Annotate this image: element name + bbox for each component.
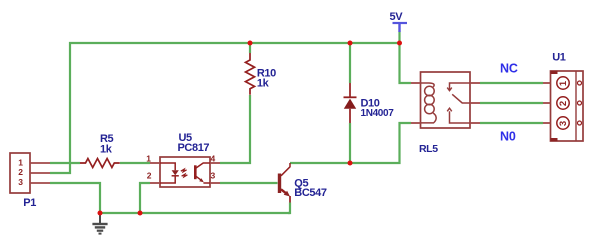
wire U5 pin3 to Q5 base	[220, 182, 278, 184]
junction dot ground/U5 pin2	[138, 211, 143, 216]
light arrows inside U5	[181, 169, 187, 172]
wire D10 top to rail	[349, 43, 351, 83]
svg-text:4: 4	[211, 153, 216, 163]
wire relay NC to U1 pin1	[480, 82, 543, 84]
transistor Q5	[280, 163, 327, 203]
junction dot 5V node	[397, 41, 402, 46]
svg-text:PC817: PC817	[178, 142, 210, 154]
svg-text:1: 1	[18, 157, 23, 167]
junction dot D10/rail	[348, 41, 353, 46]
wire 5V top rail with left drop to P1 pin2	[50, 43, 400, 173]
wire R10 bottom to U5 pin4	[220, 95, 250, 163]
svg-text:BC547: BC547	[294, 187, 327, 199]
optocoupler U5	[146, 132, 220, 187]
wire Q5 emitter to ground rail	[288, 203, 290, 214]
junction dot R10/rail	[248, 41, 253, 46]
svg-text:N0: N0	[500, 130, 516, 144]
wire relay NO to U1 pin3	[480, 122, 543, 124]
wire P1 pin3 down to ground rail	[50, 183, 100, 213]
wire 5V stem to rail	[398, 32, 400, 44]
svg-text:3: 3	[211, 171, 216, 181]
wire ground rail	[100, 212, 290, 214]
wire R10 top to rail	[249, 43, 251, 53]
svg-text:1k: 1k	[100, 143, 113, 155]
wire R5 to U5 pin1	[120, 162, 150, 164]
relay NC contact	[450, 83, 471, 90]
diode D10	[344, 83, 395, 123]
junction dot D10/collector line	[348, 161, 353, 166]
junction dot ground/P1 pin3	[98, 211, 103, 216]
relay coil	[421, 83, 435, 87]
svg-text:3: 3	[558, 121, 569, 126]
svg-text:2: 2	[147, 171, 152, 181]
wire D10 bottom to collector line	[349, 123, 351, 163]
wire P1 pin1 to R5	[50, 162, 80, 164]
ground symbol	[92, 214, 107, 235]
resistor R10	[246, 53, 277, 95]
power symbol 5V	[390, 11, 408, 32]
svg-text:5V: 5V	[390, 11, 404, 23]
svg-text:1k: 1k	[257, 78, 270, 90]
relay RL5	[411, 72, 480, 155]
svg-text:P1: P1	[23, 197, 36, 209]
svg-text:RL5: RL5	[419, 143, 438, 155]
svg-text:2: 2	[18, 167, 23, 177]
wire relay common to U1 pin2	[480, 102, 543, 104]
svg-text:NC: NC	[500, 62, 518, 76]
svg-text:1: 1	[558, 80, 569, 86]
LED inside U5	[160, 163, 175, 183]
wire 5V rail down to relay coil top pin	[400, 43, 412, 83]
wire Q5 collector to relay coil bottom pin	[290, 123, 411, 163]
svg-text:1N4007: 1N4007	[361, 108, 395, 119]
phototransistor inside U5	[194, 165, 197, 179]
connector U1	[543, 51, 583, 141]
relay pole	[452, 94, 470, 103]
wire U5 pin2 down to ground rail	[140, 183, 150, 213]
relay NO contact	[450, 111, 471, 123]
connector P1	[10, 153, 50, 209]
svg-text:2: 2	[558, 101, 569, 106]
svg-text:1: 1	[146, 153, 151, 163]
svg-text:U1: U1	[552, 51, 566, 63]
svg-text:3: 3	[18, 177, 23, 187]
resistor R5	[80, 133, 120, 168]
